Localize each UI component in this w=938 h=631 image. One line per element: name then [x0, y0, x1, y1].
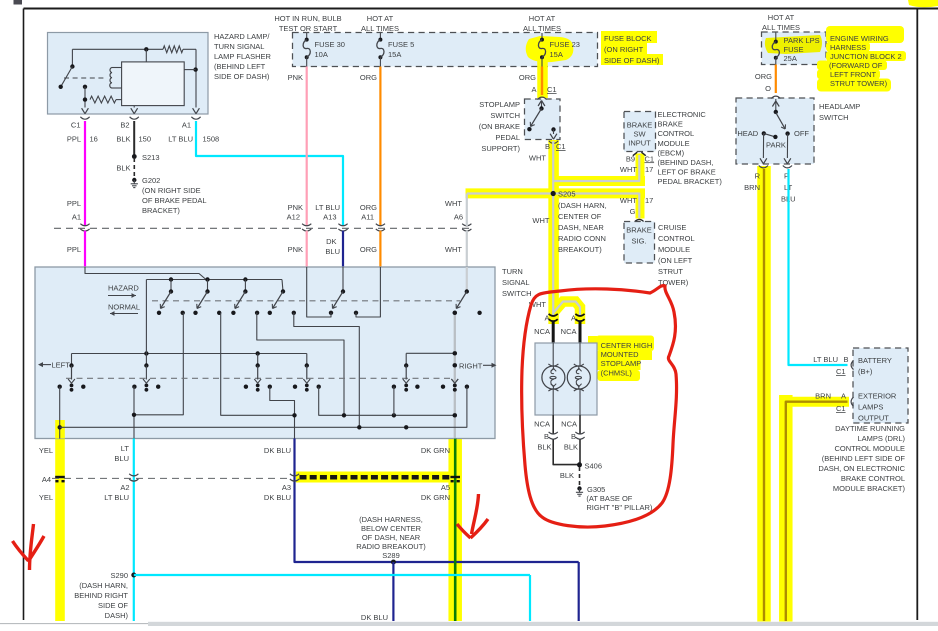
splice S290	[74, 571, 530, 621]
svg-text:CONTROL: CONTROL	[658, 129, 695, 138]
svg-text:ALL TIMES: ALL TIMES	[361, 24, 399, 33]
svg-text:WHT: WHT	[620, 165, 637, 174]
label hazard/normal	[108, 284, 140, 316]
red down arrow bottom left	[13, 524, 45, 570]
svg-text:WHT: WHT	[620, 196, 637, 205]
svg-text:PNK: PNK	[288, 73, 303, 82]
connector A2	[129, 474, 138, 476]
wire LT BLU lower	[104, 439, 134, 622]
headlamp contacts	[737, 129, 809, 150]
svg-text:STRUT TOWER): STRUT TOWER)	[830, 79, 888, 88]
svg-text:17: 17	[645, 196, 653, 205]
svg-text:BLK: BLK	[116, 164, 130, 173]
right row pole 2 (main)	[451, 363, 458, 392]
svg-text:BREAKOUT): BREAKOUT)	[558, 245, 602, 254]
svg-text:RADIO CONN: RADIO CONN	[558, 234, 606, 243]
svg-text:CONTROL MODULE: CONTROL MODULE	[834, 444, 905, 453]
fuse 23	[538, 33, 580, 67]
highlight park lps fuse	[765, 35, 822, 54]
svg-text:LT BLU: LT BLU	[168, 135, 193, 144]
svg-text:RIGHT: RIGHT	[459, 361, 483, 370]
svg-text:CENTER OF: CENTER OF	[558, 212, 602, 221]
svg-text:(EBCM): (EBCM)	[658, 148, 685, 157]
hazard feed row	[146, 277, 283, 291]
svg-text:LAMP FLASHER: LAMP FLASHER	[214, 52, 272, 61]
svg-text:HOT AT: HOT AT	[768, 13, 795, 22]
svg-text:LAMPS (DRL): LAMPS (DRL)	[857, 434, 905, 443]
connector A4	[55, 476, 65, 478]
svg-text:C1: C1	[645, 154, 655, 163]
EBCM brake sw input box	[624, 112, 656, 152]
splice S406	[577, 462, 602, 471]
svg-text:HARNESS: HARNESS	[830, 43, 866, 52]
svg-text:(CHMSL): (CHMSL)	[601, 369, 633, 378]
svg-text:SIDE OF DASH): SIDE OF DASH)	[214, 72, 270, 81]
highlighted dashed segment A3-A5	[300, 475, 453, 480]
CHMSL below labels	[534, 420, 578, 452]
ORG link to contact	[356, 267, 380, 317]
svg-text:OF DASH, NEAR: OF DASH, NEAR	[362, 533, 421, 542]
label hot at all times (fuse 23)	[523, 14, 561, 33]
svg-text:10A: 10A	[315, 50, 328, 59]
fuse 30	[303, 33, 345, 67]
svg-text:ELECTRONIC: ELECTRONIC	[658, 110, 707, 119]
svg-text:C1: C1	[836, 404, 846, 413]
svg-text:C1: C1	[556, 142, 566, 151]
svg-text:BLK: BLK	[116, 135, 130, 144]
wire WHT arm to cruise	[553, 194, 639, 219]
splice S213	[132, 153, 160, 162]
highlight YEL wire	[55, 420, 65, 621]
wire WHT S205 left arm	[467, 192, 553, 194]
svg-text:RADIO BREAKOUT): RADIO BREAKOUT)	[356, 542, 426, 551]
left row pole 1	[68, 354, 75, 392]
svg-text:S289: S289	[382, 551, 400, 560]
svg-text:BEHIND RIGHT: BEHIND RIGHT	[74, 591, 128, 600]
svg-text:NCA: NCA	[561, 327, 577, 336]
svg-text:HOT AT: HOT AT	[529, 14, 556, 23]
connector A12 PNK	[287, 203, 312, 254]
wire ORG below row	[379, 231, 381, 267]
svg-text:BLK: BLK	[564, 443, 578, 452]
highlight fuse block label	[601, 31, 663, 65]
hazard switch 2	[193, 280, 221, 315]
connector B left	[549, 415, 558, 439]
svg-text:HEAD: HEAD	[737, 129, 758, 138]
flasher top feed wire	[72, 47, 196, 62]
svg-text:(ON LEFT: (ON LEFT	[658, 256, 693, 265]
left row pole 2	[143, 280, 150, 392]
svg-text:MOUNTED: MOUNTED	[601, 350, 639, 359]
wire WHT stoplamp to S205	[552, 141, 554, 300]
svg-text:DK GRN: DK GRN	[421, 493, 450, 502]
svg-text:16: 16	[90, 135, 98, 144]
svg-text:G305: G305	[587, 485, 605, 494]
headlamp switch blade	[776, 113, 786, 129]
wire WHT split to CHMSL	[529, 294, 580, 316]
wire ORG junction block to headlamp	[755, 65, 776, 94]
svg-text:HAZARD LAMP/: HAZARD LAMP/	[214, 32, 270, 41]
svg-text:DK: DK	[326, 237, 336, 246]
LR mech dashed line	[66, 377, 455, 379]
label cruise control module	[658, 223, 695, 287]
svg-text:150: 150	[139, 135, 152, 144]
label stoplamp switch	[479, 100, 521, 153]
svg-text:SUPPORT): SUPPORT)	[481, 144, 520, 153]
connector A11 ORG	[360, 203, 385, 254]
svg-text:DAYTIME RUNNING: DAYTIME RUNNING	[835, 424, 905, 433]
svg-text:B9: B9	[626, 154, 635, 163]
svg-text:BRAKE CONTROL: BRAKE CONTROL	[841, 474, 905, 483]
svg-text:PPL: PPL	[67, 245, 81, 254]
svg-text:(ON RIGHT SIDE: (ON RIGHT SIDE	[142, 186, 201, 195]
svg-text:CRUISE: CRUISE	[658, 223, 686, 232]
svg-text:TURN: TURN	[502, 267, 523, 276]
flasher switch	[59, 49, 105, 89]
svg-text:PNK: PNK	[288, 245, 303, 254]
flasher resistor R1	[163, 46, 183, 53]
wire BLK dashed to G305	[560, 467, 580, 485]
hazard switch 4	[268, 289, 296, 315]
link contact 318 to bus B	[319, 387, 457, 418]
svg-text:WHT: WHT	[445, 245, 462, 254]
svg-text:PARK: PARK	[766, 140, 786, 149]
left row contacts	[58, 385, 321, 389]
connector A right	[571, 314, 585, 323]
label turn signal switch	[502, 267, 532, 298]
contact 393 drop	[393, 387, 395, 416]
stoplamp switch blade	[527, 109, 541, 132]
svg-text:BLU: BLU	[325, 247, 340, 256]
svg-text:CONTROL: CONTROL	[658, 234, 695, 243]
svg-text:LT BLU: LT BLU	[104, 493, 129, 502]
svg-text:MODULE: MODULE	[658, 245, 690, 254]
switch 5 DK BLU	[329, 267, 358, 315]
fuse block box	[293, 33, 598, 67]
highlight engine wiring harness label	[817, 0, 938, 92]
wire ORG from fuse 5	[360, 67, 380, 227]
svg-text:BRAKE: BRAKE	[658, 120, 683, 129]
flasher B2 branch	[133, 106, 135, 108]
connector A6 WHT	[445, 199, 471, 254]
labels B C1 WHT	[529, 142, 566, 163]
svg-text:ALL TIMES: ALL TIMES	[762, 23, 800, 32]
svg-text:15A: 15A	[550, 50, 563, 59]
svg-text:ENGINE WIRING: ENGINE WIRING	[830, 34, 889, 43]
svg-text:OF BRAKE PEDAL: OF BRAKE PEDAL	[142, 196, 207, 205]
svg-text:PARK LPS: PARK LPS	[784, 36, 820, 45]
wire PNK from fuse 30	[288, 67, 307, 227]
wire PPL 16	[67, 121, 98, 226]
svg-text:B: B	[545, 142, 550, 151]
fuse 5	[377, 33, 414, 67]
label DRL module	[818, 424, 905, 493]
wire YEL	[39, 446, 53, 502]
highlight wire stoplamp to S205 & CHMSL	[553, 140, 580, 324]
label RIGHT	[459, 361, 497, 370]
highlight S205 left arm	[466, 188, 561, 198]
hazard flasher box	[48, 33, 209, 115]
svg-text:B: B	[571, 432, 576, 441]
svg-text:PEDAL BRACKET): PEDAL BRACKET)	[658, 177, 723, 186]
connector A5	[450, 476, 460, 478]
svg-text:BRACKET): BRACKET)	[142, 206, 180, 215]
svg-text:MODULE BRACKET): MODULE BRACKET)	[833, 484, 906, 493]
label engine wiring harness junction block 2	[829, 34, 902, 88]
labels C1 B2 A1	[71, 121, 191, 130]
svg-text:LT BLU: LT BLU	[813, 355, 838, 364]
label hot at all times (fuse 5)	[361, 14, 399, 33]
label fuse block location	[604, 34, 660, 65]
svg-text:SIGNAL: SIGNAL	[502, 278, 530, 287]
svg-text:PPL: PPL	[67, 199, 81, 208]
svg-text:BRN: BRN	[815, 392, 831, 401]
headlamp switch entry	[771, 96, 780, 114]
svg-text:SWITCH: SWITCH	[502, 289, 532, 298]
flasher inner relay box	[122, 62, 185, 106]
headlamp output P	[781, 134, 796, 204]
svg-text:HAZARD: HAZARD	[108, 284, 139, 293]
svg-text:(B+): (B+)	[858, 367, 873, 376]
YEL contact drop	[58, 387, 62, 439]
svg-text:PPL: PPL	[67, 135, 81, 144]
svg-text:S406: S406	[585, 462, 603, 471]
DRL module box	[853, 348, 908, 423]
LT BLU contact drop	[132, 387, 136, 439]
svg-text:DASH): DASH)	[105, 611, 129, 620]
highlight wire fuse23 to stoplamp	[537, 60, 548, 98]
svg-text:A12: A12	[287, 213, 300, 222]
hazard mech dashed line	[152, 300, 460, 302]
svg-text:A: A	[571, 314, 576, 323]
svg-text:SWITCH: SWITCH	[490, 111, 520, 120]
wire BLK join to S406	[553, 440, 580, 465]
svg-text:DK BLU: DK BLU	[264, 493, 291, 502]
label CHMSL	[601, 341, 653, 378]
svg-text:B2: B2	[120, 121, 129, 130]
flasher output arrows	[80, 108, 200, 119]
svg-text:(DASH HARN,: (DASH HARN,	[558, 201, 607, 210]
svg-text:EXTERIOR: EXTERIOR	[858, 392, 897, 401]
svg-text:SIDE OF DASH): SIDE OF DASH)	[604, 56, 660, 65]
svg-text:OFF: OFF	[794, 129, 809, 138]
svg-text:R: R	[755, 172, 761, 181]
svg-text:C1: C1	[836, 367, 846, 376]
svg-text:C1: C1	[547, 85, 557, 94]
label headlamp switch	[819, 102, 860, 122]
svg-text:SIG.: SIG.	[631, 237, 646, 246]
svg-text:LEFT: LEFT	[52, 361, 71, 370]
svg-text:A: A	[531, 85, 536, 94]
svg-text:RIGHT "B" PILLAR): RIGHT "B" PILLAR)	[586, 503, 653, 512]
svg-text:NCA: NCA	[534, 420, 550, 429]
svg-text:BLU: BLU	[114, 454, 129, 463]
svg-text:(DASH HARN,: (DASH HARN,	[79, 581, 128, 590]
svg-text:PNK: PNK	[288, 203, 303, 212]
svg-text:STRUT: STRUT	[658, 267, 683, 276]
svg-text:FUSE 23: FUSE 23	[550, 40, 580, 49]
svg-text:(AT BASE OF: (AT BASE OF	[586, 494, 632, 503]
svg-text:BLK: BLK	[560, 471, 574, 480]
svg-text:OUTPUT: OUTPUT	[858, 414, 889, 423]
svg-text:FUSE: FUSE	[784, 45, 804, 54]
svg-text:(ON RIGHT: (ON RIGHT	[604, 45, 644, 54]
svg-text:(FORWARD OF: (FORWARD OF	[829, 61, 883, 70]
svg-text:DASH, ON ELECTRONIC: DASH, ON ELECTRONIC	[818, 464, 905, 473]
label hot in run	[274, 14, 341, 33]
svg-text:PEDAL: PEDAL	[495, 133, 520, 142]
bottom connector row dashed	[52, 477, 292, 479]
svg-text:(BEHIND LEFT: (BEHIND LEFT	[214, 62, 266, 71]
link sw1 right contact to LT BLU	[134, 313, 183, 415]
svg-text:S213: S213	[142, 153, 160, 162]
junction block 2 box	[762, 32, 827, 65]
wire LT BLU 1508	[168, 121, 343, 226]
svg-text:DK GRN: DK GRN	[421, 446, 450, 455]
connector row dashed line	[54, 227, 472, 229]
bulb right	[567, 343, 590, 415]
svg-text:A1: A1	[182, 121, 191, 130]
wire NCA stub right	[561, 322, 580, 344]
flasher A1 branch	[184, 49, 198, 107]
label LEFT	[38, 361, 70, 370]
red loop around CHMSL	[522, 286, 677, 527]
svg-text:WHT: WHT	[445, 199, 462, 208]
hazard switch 3	[231, 280, 259, 315]
svg-text:HOT AT: HOT AT	[367, 14, 394, 23]
wire BLK dashed to ground	[116, 158, 134, 177]
svg-text:WHT: WHT	[529, 154, 546, 163]
svg-text:S290: S290	[110, 571, 128, 580]
svg-text:SW: SW	[633, 130, 646, 139]
svg-text:SWITCH: SWITCH	[819, 113, 849, 122]
svg-text:15A: 15A	[388, 50, 401, 59]
PNK link to contact	[307, 267, 331, 317]
wire LT BLU from headlamp	[789, 169, 848, 365]
svg-text:BLK: BLK	[537, 443, 551, 452]
LEFT feed row	[72, 351, 307, 355]
svg-text:YEL: YEL	[39, 446, 53, 455]
svg-text:A11: A11	[361, 213, 374, 222]
connector A3	[290, 474, 299, 476]
svg-text:CENTER HIGH: CENTER HIGH	[601, 341, 653, 350]
svg-text:BELOW CENTER: BELOW CENTER	[361, 524, 422, 533]
wire DK GRN lower	[421, 439, 455, 622]
bulb left	[542, 343, 565, 415]
svg-text:A13: A13	[323, 213, 336, 222]
svg-text:LT: LT	[121, 444, 130, 453]
svg-text:LEFT FRONT: LEFT FRONT	[830, 70, 877, 79]
highlight cruise arm	[560, 193, 645, 218]
connector A13 LT BLU / DK BLU	[315, 203, 347, 256]
highlight DK GRN wire	[448, 439, 462, 622]
svg-text:NORMAL: NORMAL	[108, 303, 140, 312]
splice S289	[356, 515, 426, 622]
svg-text:ORG: ORG	[519, 73, 536, 82]
svg-text:DK BLU: DK BLU	[264, 446, 291, 455]
ground G202	[131, 176, 207, 215]
svg-text:A6: A6	[454, 213, 463, 222]
link sw3 right contact	[257, 313, 344, 416]
svg-text:B: B	[844, 355, 849, 364]
svg-text:G202: G202	[142, 176, 160, 185]
bottom ui bar	[0, 622, 938, 627]
svg-text:(DASH HARNESS,: (DASH HARNESS,	[359, 515, 423, 524]
svg-text:A2: A2	[120, 483, 129, 492]
svg-text:FUSE 5: FUSE 5	[388, 40, 414, 49]
hazard feed from PPL	[85, 267, 206, 280]
svg-text:BRN: BRN	[744, 183, 760, 192]
svg-text:C1: C1	[71, 121, 81, 130]
link sw4 right contact	[294, 313, 360, 428]
highlight A3-A5 dashed link	[296, 472, 453, 483]
wire BRN from headlamp	[763, 169, 765, 621]
svg-text:ORG: ORG	[360, 73, 377, 82]
svg-text:O: O	[765, 84, 771, 93]
svg-text:BATTERY: BATTERY	[858, 356, 892, 365]
highlight fuse 23	[526, 36, 574, 62]
svg-text:(ON BRAKE: (ON BRAKE	[479, 122, 520, 131]
svg-text:YEL: YEL	[39, 493, 53, 502]
wire WHT to A6 and into switch	[466, 194, 468, 268]
svg-text:(BEHIND LEFT SIDE OF: (BEHIND LEFT SIDE OF	[822, 454, 906, 463]
svg-text:HEADLAMP: HEADLAMP	[819, 102, 860, 111]
stoplamp switch box	[525, 99, 561, 140]
svg-text:BRAKE: BRAKE	[626, 226, 651, 235]
label hot at all times (park fuse)	[762, 13, 800, 32]
park lps fuse	[772, 33, 819, 65]
svg-text:FUSE 30: FUSE 30	[315, 40, 345, 49]
svg-text:ORG: ORG	[360, 245, 377, 254]
switch 6 WHT	[453, 267, 482, 315]
svg-text:NCA: NCA	[561, 420, 577, 429]
svg-text:WHT: WHT	[532, 216, 549, 225]
svg-text:HOT IN RUN, BULB: HOT IN RUN, BULB	[274, 14, 341, 23]
svg-text:25A: 25A	[784, 54, 797, 63]
connector A1 PPL	[67, 199, 90, 254]
red arrow near DK GRN	[457, 494, 488, 538]
splice S205	[532, 190, 606, 255]
svg-text:DASH, NEAR: DASH, NEAR	[558, 223, 604, 232]
RIGHT feed row	[406, 351, 457, 355]
highlight DRL exterior lamps output wire	[780, 395, 849, 626]
wire DK BLU lower	[264, 439, 579, 622]
svg-text:FUSE BLOCK: FUSE BLOCK	[604, 34, 652, 43]
headlamp output R	[744, 133, 768, 192]
connector B right	[575, 415, 584, 439]
svg-text:A: A	[544, 314, 549, 323]
right row contacts	[392, 385, 469, 389]
highlight CHMSL label	[588, 336, 654, 382]
svg-text:ORG: ORG	[755, 72, 772, 81]
CHMSL box	[535, 343, 597, 415]
svg-text:INPUT: INPUT	[628, 139, 651, 148]
connector A left	[544, 314, 557, 323]
right row pole 1	[403, 353, 410, 391]
svg-text:BRAKE: BRAKE	[627, 121, 652, 130]
stoplamp switch entry	[537, 97, 546, 111]
svg-text:(BEHIND DASH,: (BEHIND DASH,	[658, 158, 714, 167]
svg-text:S205: S205	[558, 190, 576, 199]
wire WHT arm to EBCM	[553, 155, 639, 181]
svg-text:LT BLU: LT BLU	[315, 203, 340, 212]
flasher coil	[110, 68, 122, 89]
label hazard flasher	[214, 32, 272, 81]
wire PPL below row	[84, 231, 86, 267]
svg-text:A5: A5	[441, 483, 450, 492]
wire NCA stub left	[534, 322, 553, 344]
DRL exterior lamps output A	[815, 392, 897, 423]
